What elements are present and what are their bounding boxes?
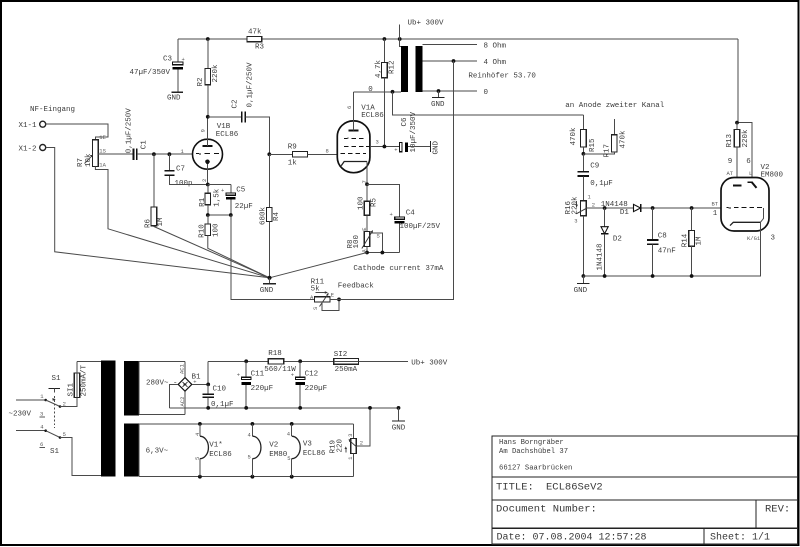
trimmer R8 [347,227,381,253]
magic eye tube V2 EM800 [712,158,784,243]
svg-text:250mA/T: 250mA/T [80,364,88,396]
ground below C3 [167,92,183,102]
svg-text:V1B: V1B [217,123,231,131]
svg-text:C10: C10 [213,386,227,394]
heater winding 6,3V box [139,424,353,477]
junction V1B cathode pin 2 [206,183,210,187]
ground at C6 (rotated) [408,140,440,154]
svg-text:470k: 470k [570,127,578,146]
capacitor C7 [164,154,192,188]
svg-text:C11: C11 [251,371,265,379]
svg-text:R9: R9 [288,143,297,151]
svg-text:C9: C9 [590,163,599,171]
svg-text:C4: C4 [406,209,416,217]
svg-text:AC1: AC1 [178,363,185,374]
capacitor C8 [647,208,676,276]
wire X1-2 to ground star [46,148,270,278]
svg-text:C12: C12 [305,371,319,379]
svg-text:K/G1: K/G1 [747,235,761,242]
svg-text:2: 2 [592,201,595,208]
wire cathode node R1/R10/C5 [208,214,231,216]
svg-text:22µF: 22µF [235,203,253,211]
svg-text:280V~ -: 280V~ - [146,379,178,387]
ground at speaker 0 tap [431,91,445,109]
capacitor C6 [394,111,418,153]
svg-text:AC2: AC2 [179,397,186,407]
svg-text:47µF/350V: 47µF/350V [130,69,171,77]
pentode V1A [326,92,385,184]
resistor R9 [269,143,337,167]
resistor R10 [199,215,221,238]
svg-text:220k: 220k [571,196,579,215]
heater V1 ECL86 [194,422,233,479]
svg-text:GND: GND [392,425,406,433]
svg-text:GND: GND [431,101,445,109]
svg-text:GND: GND [167,95,181,103]
svg-text:2: 2 [360,439,363,446]
svg-text:0: 0 [484,89,489,97]
svg-text:EM80: EM80 [269,451,288,459]
wire R7 bottom to ground star [95,167,269,278]
svg-text:GND: GND [574,287,588,295]
ground below R16 [574,274,590,295]
resistor R14 [681,208,703,276]
svg-text:+: + [237,372,240,379]
wire V1A cathode pin7 node [366,173,368,185]
svg-text:220µF: 220µF [251,385,274,393]
title row [496,482,603,494]
ground star node [260,276,276,295]
mains wire L [16,399,46,401]
svg-text:R3: R3 [255,43,265,51]
svg-text:BT: BT [712,201,719,208]
power transformer core bar right upper [124,361,139,415]
svg-text:220µF: 220µF [305,385,328,393]
capacitor C10 [203,384,234,409]
svg-text:220k: 220k [742,129,750,148]
junction to C7 [168,152,172,156]
svg-text:R14: R14 [681,233,689,247]
wire C1 to V1B grid pin 1 [137,153,192,155]
heater V2 EM80 [248,422,288,479]
svg-text:680k: 680k [260,206,268,225]
svg-text:R7: R7 [77,158,85,167]
svg-text:8: 8 [326,147,329,154]
svg-text:3: 3 [771,234,776,242]
svg-text:100: 100 [358,196,366,210]
svg-text:R10: R10 [199,224,207,238]
wire R7 wiper to C1 [98,153,133,155]
capacitor C1 [125,108,148,161]
svg-text:+: + [221,187,224,194]
svg-text:Am Dachshübel 37: Am Dachshübel 37 [499,448,568,456]
resistor R2 [197,37,220,117]
diode D1 [601,201,641,217]
resistor R12 [375,37,397,146]
svg-text:TITLE:: TITLE: [496,482,534,494]
resistor R3 [247,29,265,52]
svg-text:100: 100 [353,234,361,248]
svg-text:0,1µF/250V: 0,1µF/250V [247,62,255,108]
wire B1 plus to rail [192,361,208,384]
svg-text:ECL86: ECL86 [303,450,326,458]
junction R9 node [267,152,271,156]
wire R10 bottom to ground star [208,236,270,278]
junction D2 [603,206,607,210]
svg-text:Cathode current 37mA: Cathode current 37mA [353,265,444,273]
wire R8 bottom node [366,247,368,253]
svg-text:+: + [291,372,294,379]
svg-text:ECL86: ECL86 [216,131,239,139]
connector X1-1 [19,121,46,130]
svg-text:ECL86SeV2: ECL86SeV2 [546,482,603,494]
trimmer R19 [329,424,363,477]
svg-text:Feedback: Feedback [338,282,375,290]
DC plus rail [208,360,408,362]
svg-text:Document Number:: Document Number: [496,504,597,516]
connector X1-2 [19,145,46,154]
resistor R6 [144,154,165,228]
svg-text:R2: R2 [197,77,205,86]
svg-text:Ub+ 300V: Ub+ 300V [408,20,445,28]
wire X1-1 to R7 top [46,124,108,140]
svg-text:1E: 1E [99,134,106,141]
svg-text:R1: R1 [199,197,207,207]
potentiometer R7 [77,134,107,169]
ground at minus bus [392,406,406,433]
svg-text:D1: D1 [620,209,630,217]
280V secondary winding box [139,362,185,415]
svg-text:SI1: SI1 [68,382,76,396]
svg-text:100p: 100p [175,180,193,188]
junction to R6 [152,152,156,156]
svg-text:C6: C6 [401,117,409,127]
svg-text:4 Ohm: 4 Ohm [484,59,507,67]
svg-text:6,3V~: 6,3V~ [146,447,169,455]
svg-text:R4: R4 [273,211,281,221]
svg-text:C5: C5 [236,186,246,194]
svg-text:S1: S1 [52,375,62,383]
svg-text:5: 5 [248,454,251,461]
junction R15/R17/C9 [582,152,586,156]
power transformer core bar left [101,360,116,476]
svg-text:~230V: ~230V [9,410,32,418]
resistor R18 [264,350,296,374]
wire pin7 to C4 [367,184,400,217]
svg-text:1A: 1A [99,162,106,169]
svg-text:Hans Borngräber: Hans Borngräber [499,439,564,447]
wire C2 to R9/R4 node [245,117,269,155]
svg-text:GND: GND [432,140,440,154]
wire: to anode of second channel [393,92,665,115]
svg-text:1k: 1k [288,159,298,167]
svg-text:4,7k: 4,7k [375,59,383,78]
svg-text:0,1µF: 0,1µF [211,401,234,409]
fuse SI1 [60,362,88,407]
capacitor C12 [291,359,327,409]
junction C8 top [651,206,655,210]
resistor R17 [583,119,627,158]
svg-text:10k: 10k [85,153,93,167]
svg-text:100: 100 [212,223,220,237]
wire: rail to EM800 branch [738,39,752,182]
document number row [496,504,790,516]
svg-text:R13: R13 [726,133,734,147]
capacitor C3 [130,39,185,92]
svg-text:Sheet: 1/1: Sheet: 1/1 [710,532,770,544]
svg-text:V1*: V1* [209,442,223,450]
wire R8 wiper loop [370,233,383,253]
svg-text:C7: C7 [176,166,185,174]
svg-text:47nF: 47nF [658,247,676,255]
triode V1B [181,117,239,185]
resistor R5 [358,184,379,231]
svg-text:2: 2 [201,179,208,182]
junction R13 top [735,121,739,125]
svg-text:S1: S1 [50,448,60,456]
resistor R13 [726,123,750,185]
wire R19 wiper to bus [356,408,370,446]
capacitor C4 [390,209,441,252]
output transformer primary connection [400,39,401,46]
fuse SI2 [334,351,359,374]
wire R16 wiper to D1 [586,207,633,209]
junction R14 top [690,206,694,210]
svg-text:1: 1 [713,210,718,218]
svg-text:5: 5 [287,455,290,462]
svg-text:0,1µF: 0,1µF [590,180,613,188]
svg-text:470k: 470k [619,130,627,149]
junction R12/pin3 [383,145,387,149]
output transformer core bar secondary [415,46,422,92]
capacitor C2 [208,62,255,122]
svg-text:R5: R5 [370,197,378,207]
wire C7 bottom to cathode node [169,176,207,185]
wire R6 bottom to ground star [154,226,270,278]
svg-text:GND: GND [260,287,274,295]
svg-text:X1-1: X1-1 [19,122,38,130]
date and sheet row [497,532,771,544]
svg-text:R17: R17 [604,144,612,158]
svg-text:C2: C2 [232,99,240,108]
svg-text:0: 0 [368,86,373,94]
svg-text:1M: 1M [157,217,165,227]
svg-text:C3: C3 [163,56,173,64]
svg-text:5: 5 [194,457,201,460]
wire D1 to V2 pin 1 [642,207,721,209]
svg-text:220k: 220k [212,64,220,83]
switch S1 pole 2 [40,424,66,456]
capacitor C11 [237,359,273,409]
svg-text:8 Ohm: 8 Ohm [484,42,507,50]
svg-text:C1: C1 [140,140,148,150]
svg-text:C8: C8 [658,232,667,240]
svg-text:ECL86: ECL86 [209,451,232,459]
svg-text:R6: R6 [144,218,152,228]
svg-text:+: + [390,211,393,218]
svg-text:X1-2: X1-2 [19,145,37,153]
wire R11 wiper loop [322,299,339,310]
resistor R15 [570,115,597,154]
svg-text:ECL86: ECL86 [361,112,384,120]
svg-text:Ub+ 300V: Ub+ 300V [411,360,448,368]
svg-text:9: 9 [200,129,207,132]
svg-text:66127 Saarbrücken: 66127 Saarbrücken [499,465,572,473]
wire B1 minus to bus [170,384,179,408]
svg-text:L: L [749,170,752,177]
wire V1A pin3 to C6 [370,146,399,148]
heater V3 ECL86 [287,422,326,479]
svg-text:R12: R12 [389,60,397,74]
wire R16 bottom to ground [582,216,584,276]
trimmer R16 [565,194,595,225]
wire feedback to 4 Ohm tap [330,61,454,299]
svg-text:0,1µF/250V: 0,1µF/250V [125,108,133,154]
capacitor C9 [578,154,613,201]
svg-text:R18: R18 [268,350,282,358]
svg-text:1N4148: 1N4148 [597,243,605,270]
svg-text:250mA: 250mA [335,366,358,374]
trimmer R11 [310,278,335,310]
svg-text:9: 9 [728,158,733,166]
bridge rectifier B1 [178,363,201,406]
secondary tap 8 Ohm [422,42,506,50]
resistor R1 [199,185,221,216]
author address [499,439,572,473]
svg-text:R15: R15 [589,138,597,152]
power transformer primary winding box [60,362,101,476]
svg-text:6: 6 [346,106,353,109]
title block frame [492,436,798,544]
svg-text:220: 220 [336,438,344,452]
diode D2 [597,208,622,276]
svg-text:V3: V3 [303,440,313,448]
svg-text:1S: 1S [99,148,106,155]
svg-text:Reinhöfer 53.70: Reinhöfer 53.70 [468,73,536,81]
svg-text:3: 3 [574,218,577,225]
svg-text:SI2: SI2 [334,351,348,359]
svg-text:3: 3 [347,433,354,436]
power transformer core bar right lower [124,424,139,477]
svg-text:1M: 1M [696,236,704,246]
svg-text:AT: AT [727,170,734,177]
svg-text:5k: 5k [311,285,321,293]
capacitor C5 [208,185,253,216]
wire: main B+ rail [178,38,738,40]
svg-text:V2: V2 [269,442,278,450]
secondary tap 0 [422,89,488,97]
DC minus bus [170,407,399,409]
svg-text:REV:: REV: [765,504,790,516]
wire bottom common to V2 pin 3 [583,231,760,276]
mains wire N [16,430,46,432]
net label Ub+ 300V (top) [398,20,444,41]
wire feedback from cathode node [231,215,315,299]
svg-text:an Anode zweiter Kanal: an Anode zweiter Kanal [565,102,665,110]
svg-text:D2: D2 [613,236,622,244]
wire R8 node to ground star [270,253,368,278]
switch S1 pole 1 [40,375,66,428]
svg-text:+: + [182,56,185,63]
resistor R4 [260,154,281,277]
svg-text:47k: 47k [248,29,262,37]
secondary tap 4 Ohm [422,59,506,67]
svg-text:6: 6 [746,158,751,166]
junction V1B anode / C2 [206,115,210,119]
svg-text:+: + [394,147,397,154]
svg-text:Date: 07.08.2004 12:57:28: Date: 07.08.2004 12:57:28 [497,533,647,544]
svg-text:EM800: EM800 [761,171,784,179]
output transformer core bar primary [401,46,408,92]
wire: primary bottom to V1A anode, node 0 [354,86,401,94]
svg-text:3: 3 [376,139,379,146]
svg-text:NF-Eingang: NF-Eingang [30,106,75,114]
svg-text:100µF/25V: 100µF/25V [400,223,441,231]
